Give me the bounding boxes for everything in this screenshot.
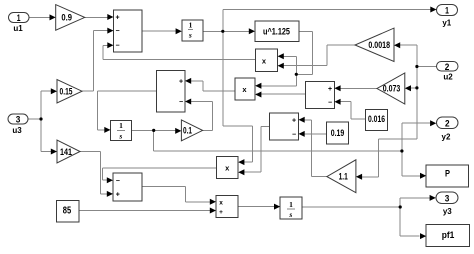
arrowhead into product X2 bottom (255, 92, 261, 98)
arrowhead into sum U7 port - (299, 131, 305, 137)
arrowhead into sum U5 port - (334, 99, 340, 105)
svg-text:s: s (188, 31, 192, 40)
constant 85 (57, 201, 80, 222)
svg-text:+: + (179, 78, 183, 85)
arrowhead into product X2 top (255, 83, 261, 89)
svg-text:s: s (118, 131, 122, 140)
arrowhead into sum U1 port -2 (107, 42, 113, 48)
svg-text:−: − (292, 132, 296, 139)
svg-text:+: + (115, 15, 119, 22)
wire sum U8 output to product X4 top input (142, 187, 211, 202)
arrowhead into output port y2 (430, 120, 436, 126)
svg-text:pf1: pf1 (442, 230, 455, 240)
svg-text:y2: y2 (442, 133, 451, 142)
wire product X4 output to integrator 1/s U9 (238, 206, 275, 208)
arrowhead into gain 0.0018 (394, 42, 400, 48)
svg-text:3: 3 (445, 193, 450, 203)
svg-text:0.0018: 0.0018 (368, 40, 390, 50)
node integrator U6 output branch (152, 129, 155, 132)
arrowhead into integrator U9 (274, 204, 280, 210)
arrowhead into scope P (420, 173, 426, 179)
arrowhead into scope pf1 (420, 233, 426, 239)
arrowhead into product X4 port x (210, 199, 216, 205)
arrowhead into gain 0.1 (175, 128, 181, 134)
wire sum1 to integrator 1/s U3 (142, 30, 176, 32)
svg-text:−: − (179, 99, 183, 106)
wire u3 node (28, 91, 52, 151)
arrowhead into integrator U6 (104, 127, 110, 133)
svg-text:0.9: 0.9 (61, 13, 72, 23)
output port y1 (437, 5, 458, 16)
gain 0.1 (181, 120, 202, 141)
svg-text:s: s (288, 210, 292, 219)
wire gain 1.1 output to sum U7 plus input (304, 120, 327, 177)
svg-text:2: 2 (445, 118, 450, 128)
output port y3 (436, 192, 458, 204)
wire product X1 output to sum1 port3 (103, 45, 256, 59)
svg-text:u^1.125: u^1.125 (263, 26, 290, 36)
svg-text:u3: u3 (12, 126, 22, 135)
wire integrator U9 output to y3 and pf1 (302, 198, 430, 236)
svg-text:x: x (219, 200, 223, 207)
arrowhead into product X3 bottom (238, 169, 244, 175)
arrowhead into u^1.125 (249, 28, 255, 34)
product X2 (mirrored) (235, 78, 255, 100)
svg-text:0.19: 0.19 (331, 128, 345, 138)
wire sum U4 output to integrator 1/s U6 (98, 91, 157, 130)
arrowhead into product X4 port + (210, 208, 216, 214)
arrowhead into sum U7 port + (299, 117, 305, 123)
svg-text:u2: u2 (443, 72, 453, 81)
arrowhead into gain 141 (51, 149, 57, 155)
integrator U3 1/s (182, 20, 203, 41)
arrowhead into product X1 bottom (278, 63, 284, 69)
wire u^1.125 output to products X1 and X2 (256, 31, 313, 86)
svg-text:−: − (116, 178, 120, 185)
gain 1.1 (mirrored) (327, 160, 356, 193)
arrowhead into sum U4 port + (185, 78, 191, 84)
arrowhead into gain 0.15 (51, 88, 57, 94)
gain 0.073 (mirrored) (377, 73, 405, 104)
svg-text:y1: y1 (442, 19, 451, 28)
svg-text:u1: u1 (13, 24, 23, 33)
arrowhead into gain 0.073 (405, 85, 411, 91)
svg-text:3: 3 (16, 114, 21, 124)
svg-text:1: 1 (17, 13, 21, 23)
svg-text:2: 2 (445, 62, 450, 72)
svg-text:1.1: 1.1 (339, 171, 348, 181)
output port y2 (437, 117, 459, 129)
svg-text:P: P (445, 168, 450, 178)
sum block U4 (mirrored, + -) (157, 71, 186, 113)
wire state x1 to output y1 (223, 9, 431, 126)
wire gain 0.0018 output to product X1 lower input (279, 45, 356, 65)
arrowhead into sum U8 port - (107, 177, 113, 183)
svg-text:y3: y3 (443, 207, 452, 216)
arrowhead into sum U1 port -1 (107, 28, 113, 34)
svg-text:−: − (115, 43, 119, 50)
integrator U6 1/s (111, 120, 132, 140)
arrowhead into gain 0.9 (50, 14, 56, 20)
wire integrator U6 output to gain 0.1 (132, 129, 176, 131)
node integrator U9 output branch (399, 205, 402, 208)
wire gain 0.15 to sum1 port2 (82, 31, 108, 92)
arrowhead into integrator U2 (176, 28, 182, 34)
svg-text:0.15: 0.15 (60, 87, 73, 97)
gain 0.0018 (mirrored) (355, 28, 394, 61)
sum block U8 (- +) (113, 173, 142, 201)
wire gain 141 output to sum U8 plus input (80, 152, 108, 194)
integrator U9 1/s (280, 197, 302, 219)
svg-text:1: 1 (189, 21, 193, 30)
svg-text:+: + (328, 86, 332, 93)
svg-text:0.016: 0.016 (368, 114, 385, 124)
wire gain 0.1 output to sum U4 minus input (186, 102, 212, 131)
sum block U7 (mirrored, + -) (270, 113, 299, 140)
wire sum U7 output to product X3 lower input (244, 127, 270, 173)
sum block U5 (mirrored, + -) (306, 82, 335, 109)
node u2 branch to 0.073 (415, 86, 418, 89)
wire block 0.016 output to sum U5 minus input (340, 102, 366, 119)
node state x1 branch (221, 30, 224, 33)
svg-text:0.073: 0.073 (383, 84, 401, 94)
wire constant 85 to product X4 lower input (79, 210, 211, 212)
sum block U1 (+ - -) (114, 10, 143, 52)
gain 0.15 (57, 80, 82, 104)
wire product X3 output to sum U8 minus input (103, 168, 217, 180)
node u^1.125 branch (295, 73, 298, 76)
node u2 branch upper (415, 65, 418, 68)
arrowhead into product X3 top (238, 159, 244, 165)
input port u1 (9, 13, 30, 23)
input port u2 (437, 62, 459, 72)
svg-text:1: 1 (289, 200, 293, 209)
svg-text:1: 1 (119, 121, 123, 130)
arrowhead into output port y1 (430, 7, 436, 13)
product X3 (mirrored) (216, 157, 238, 179)
wire u1 to gain 0.9 (29, 16, 51, 18)
product X4 (x +) (216, 196, 238, 218)
wire block 0.19 output to sum U7 minus input (304, 133, 327, 135)
block 0.016 (mirrored) (366, 109, 388, 130)
gain 141 (57, 140, 80, 163)
wire gain 0.073 output to sum U5 plus input (340, 87, 377, 89)
gain 0.9 (56, 5, 85, 31)
wire product X2 output to sum U4 plus input (186, 81, 235, 91)
wire integrator U3 output to u^1.125 (203, 30, 250, 32)
wire state x2 net to y2, P and 1.1 area (154, 123, 431, 176)
svg-text:−: − (115, 28, 119, 35)
arrowhead into sum U5 port + (334, 85, 340, 91)
math function u^1.125 (255, 21, 299, 42)
arrowhead into sum U1 port + (107, 14, 113, 20)
arrowhead into gain 1.1 (356, 174, 362, 180)
svg-text:+: + (292, 117, 296, 124)
node x2 net branch (400, 149, 403, 152)
wire u2 net to gains 0.0018, 0.073 and 1.1 (361, 45, 437, 177)
wire gain 0.9 to sum1 port1 (85, 16, 108, 18)
svg-text:0.1: 0.1 (183, 126, 192, 136)
product X1 (mirrored) (256, 49, 278, 72)
svg-text:1: 1 (445, 5, 449, 15)
svg-text:−: − (328, 99, 332, 106)
arrowhead into sum U8 port + (107, 191, 113, 197)
svg-text:+: + (219, 209, 223, 216)
scope pf1 (426, 224, 469, 246)
arrowhead into output port y3 (430, 195, 436, 201)
wire sum U5 output to product X2 lower input (256, 93, 306, 95)
arrowhead into sum U4 port - (185, 99, 191, 105)
scope P (426, 165, 469, 187)
arrowhead into product X1 top (278, 53, 284, 59)
node u3 branch (39, 117, 42, 120)
block 0.19 (mirrored) (327, 122, 349, 144)
svg-text:+: + (116, 192, 120, 199)
svg-text:85: 85 (63, 206, 72, 217)
wire state x1 branch to product X3 top input (223, 126, 253, 162)
input port u3 (8, 114, 28, 124)
svg-text:141: 141 (60, 147, 72, 157)
